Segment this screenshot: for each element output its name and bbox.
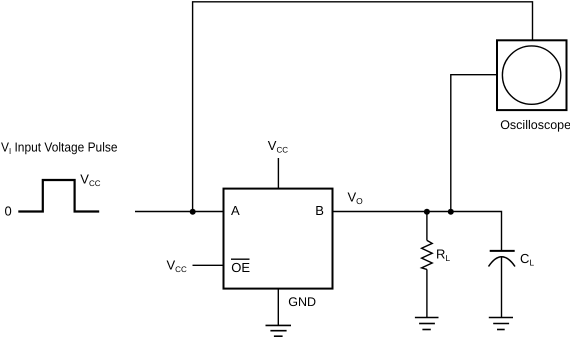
DUT box U1 xyxy=(224,189,333,289)
ground symbol (RL) xyxy=(415,318,439,330)
capacitor CL top plate xyxy=(490,250,515,252)
node junction dot at oscilloscope branch xyxy=(448,209,454,215)
wire from node A up and across to oscilloscope top xyxy=(193,2,533,212)
resistor RL zigzag xyxy=(422,240,433,269)
svg-text:VI Input Voltage Pulse: VI Input Voltage Pulse xyxy=(1,139,118,156)
resistor RL branch wire bottom xyxy=(426,269,428,317)
oscilloscope screen circle xyxy=(502,46,560,104)
ground symbol (CL) xyxy=(489,318,513,330)
GND pin wire (bottom of DUT) xyxy=(277,289,279,326)
svg-text:Oscilloscope: Oscilloscope xyxy=(500,118,570,132)
wire input to pin A xyxy=(135,211,223,213)
svg-text:OE: OE xyxy=(231,260,250,275)
wire pin B to capacitor branch xyxy=(333,212,502,251)
svg-text:0: 0 xyxy=(5,204,12,219)
VCC pin wire (top of DUT) xyxy=(277,158,279,189)
OE pin wire xyxy=(193,264,225,266)
input pulse waveform xyxy=(18,180,99,212)
svg-text:B: B xyxy=(315,203,324,218)
svg-text:A: A xyxy=(231,203,240,218)
oscilloscope box xyxy=(497,40,567,110)
capacitor CL bottom wire xyxy=(501,257,503,318)
node junction dot at RL xyxy=(424,209,430,215)
resistor RL branch wire top xyxy=(426,212,428,241)
capacitor CL curved bottom plate xyxy=(489,257,516,267)
svg-text:GND: GND xyxy=(288,295,316,309)
node junction dot at A input xyxy=(190,209,196,215)
wire from node VO-right up into oscilloscope left xyxy=(451,75,497,212)
ground symbol (DUT GND) xyxy=(266,325,292,336)
OE overline xyxy=(231,258,250,260)
